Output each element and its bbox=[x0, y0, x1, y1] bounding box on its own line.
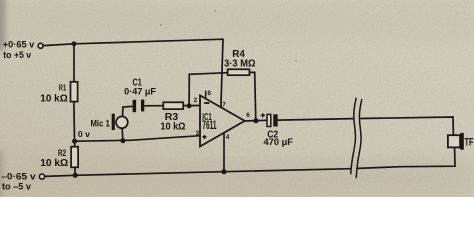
svg-text:7611: 7611 bbox=[202, 119, 217, 132]
cable break marks bbox=[351, 98, 362, 179]
node: R2 on -V rail bbox=[73, 173, 78, 178]
terminal -V bbox=[39, 174, 44, 179]
wire: 0v rail from R1/R2 node to pin 3 of IC1 bbox=[75, 136, 200, 142]
wire: -V rail right of break up to TF bottom bbox=[357, 148, 455, 169]
node: +V junction at R1 bbox=[72, 41, 77, 46]
node: 0v junction R1/R2 bbox=[72, 139, 77, 144]
node: mic on 0v rail bbox=[120, 138, 125, 143]
plus sign pin 3 bbox=[203, 135, 207, 139]
wire: R3 to pin 2 of IC1 bbox=[183, 105, 200, 107]
capacitor C1 bbox=[133, 100, 145, 113]
plus sign C2 bbox=[261, 113, 265, 117]
wire: C1 to R3 bbox=[144, 105, 163, 107]
wire: R1 branch from +V rail down to 0v node bbox=[73, 44, 76, 141]
resistor R2 bbox=[71, 147, 78, 168]
svg-text:R2: R2 bbox=[58, 148, 66, 158]
wire: pin 4 down to bottom rail bbox=[223, 133, 225, 172]
wire: output pin 6 to C2 bbox=[245, 119, 267, 122]
resistor R3 bbox=[163, 102, 183, 109]
resistor R1 bbox=[71, 82, 78, 102]
node: output bbox=[253, 118, 258, 123]
wire: pin 8 stub bbox=[205, 91, 207, 99]
wire: R4 right lead down to output node bbox=[249, 72, 255, 120]
wire: mic bottom stub to 0v rail bbox=[121, 128, 124, 140]
wire: feedback from pin2 node up and to R4 bbox=[189, 73, 228, 106]
earpiece TF bbox=[448, 133, 464, 150]
resistor R4 bbox=[228, 69, 250, 75]
svg-text:10 kΩ: 10 kΩ bbox=[40, 158, 68, 169]
svg-text:to –5 v: to –5 v bbox=[2, 182, 32, 193]
svg-text:8: 8 bbox=[207, 90, 211, 97]
wire: mic top stub and link to C1 bbox=[123, 106, 133, 116]
svg-text:6: 6 bbox=[246, 112, 250, 119]
wire: break to TF top bbox=[360, 117, 453, 135]
terminal +V bbox=[38, 43, 43, 48]
svg-text:4: 4 bbox=[226, 134, 230, 141]
capacitor C2 bbox=[261, 113, 278, 126]
svg-text:7: 7 bbox=[222, 102, 226, 109]
svg-text:470 μF: 470 μF bbox=[264, 137, 294, 147]
svg-text:10 kΩ: 10 kΩ bbox=[160, 122, 185, 133]
wire: C2 to break bbox=[278, 119, 354, 121]
node: pin 2 / feedback bbox=[187, 104, 192, 109]
svg-text:to +5 v: to +5 v bbox=[3, 50, 31, 61]
op-amp IC1 bbox=[200, 95, 245, 146]
svg-text:10 kΩ: 10 kΩ bbox=[40, 94, 67, 105]
microphone Mic 1 bbox=[112, 114, 128, 130]
svg-text:R1: R1 bbox=[59, 82, 67, 92]
svg-text:0 v: 0 v bbox=[78, 130, 91, 139]
svg-text:Mic 1: Mic 1 bbox=[91, 119, 110, 129]
minus sign pin 2 bbox=[204, 102, 209, 104]
svg-text:3·3 MΩ: 3·3 MΩ bbox=[224, 59, 256, 70]
wire: +V rail from terminal to corner, down to pin 7 bbox=[43, 39, 223, 107]
wire: R2 branch from 0v node to bottom rail bbox=[74, 141, 77, 175]
node: pin 4 on -V rail bbox=[221, 169, 226, 174]
svg-text:TF: TF bbox=[465, 136, 474, 148]
wire: -V bottom rail left part to break bbox=[45, 169, 351, 177]
svg-text:0·47 μF: 0·47 μF bbox=[124, 86, 156, 96]
svg-text:2: 2 bbox=[194, 97, 198, 104]
svg-text:3: 3 bbox=[196, 130, 200, 137]
